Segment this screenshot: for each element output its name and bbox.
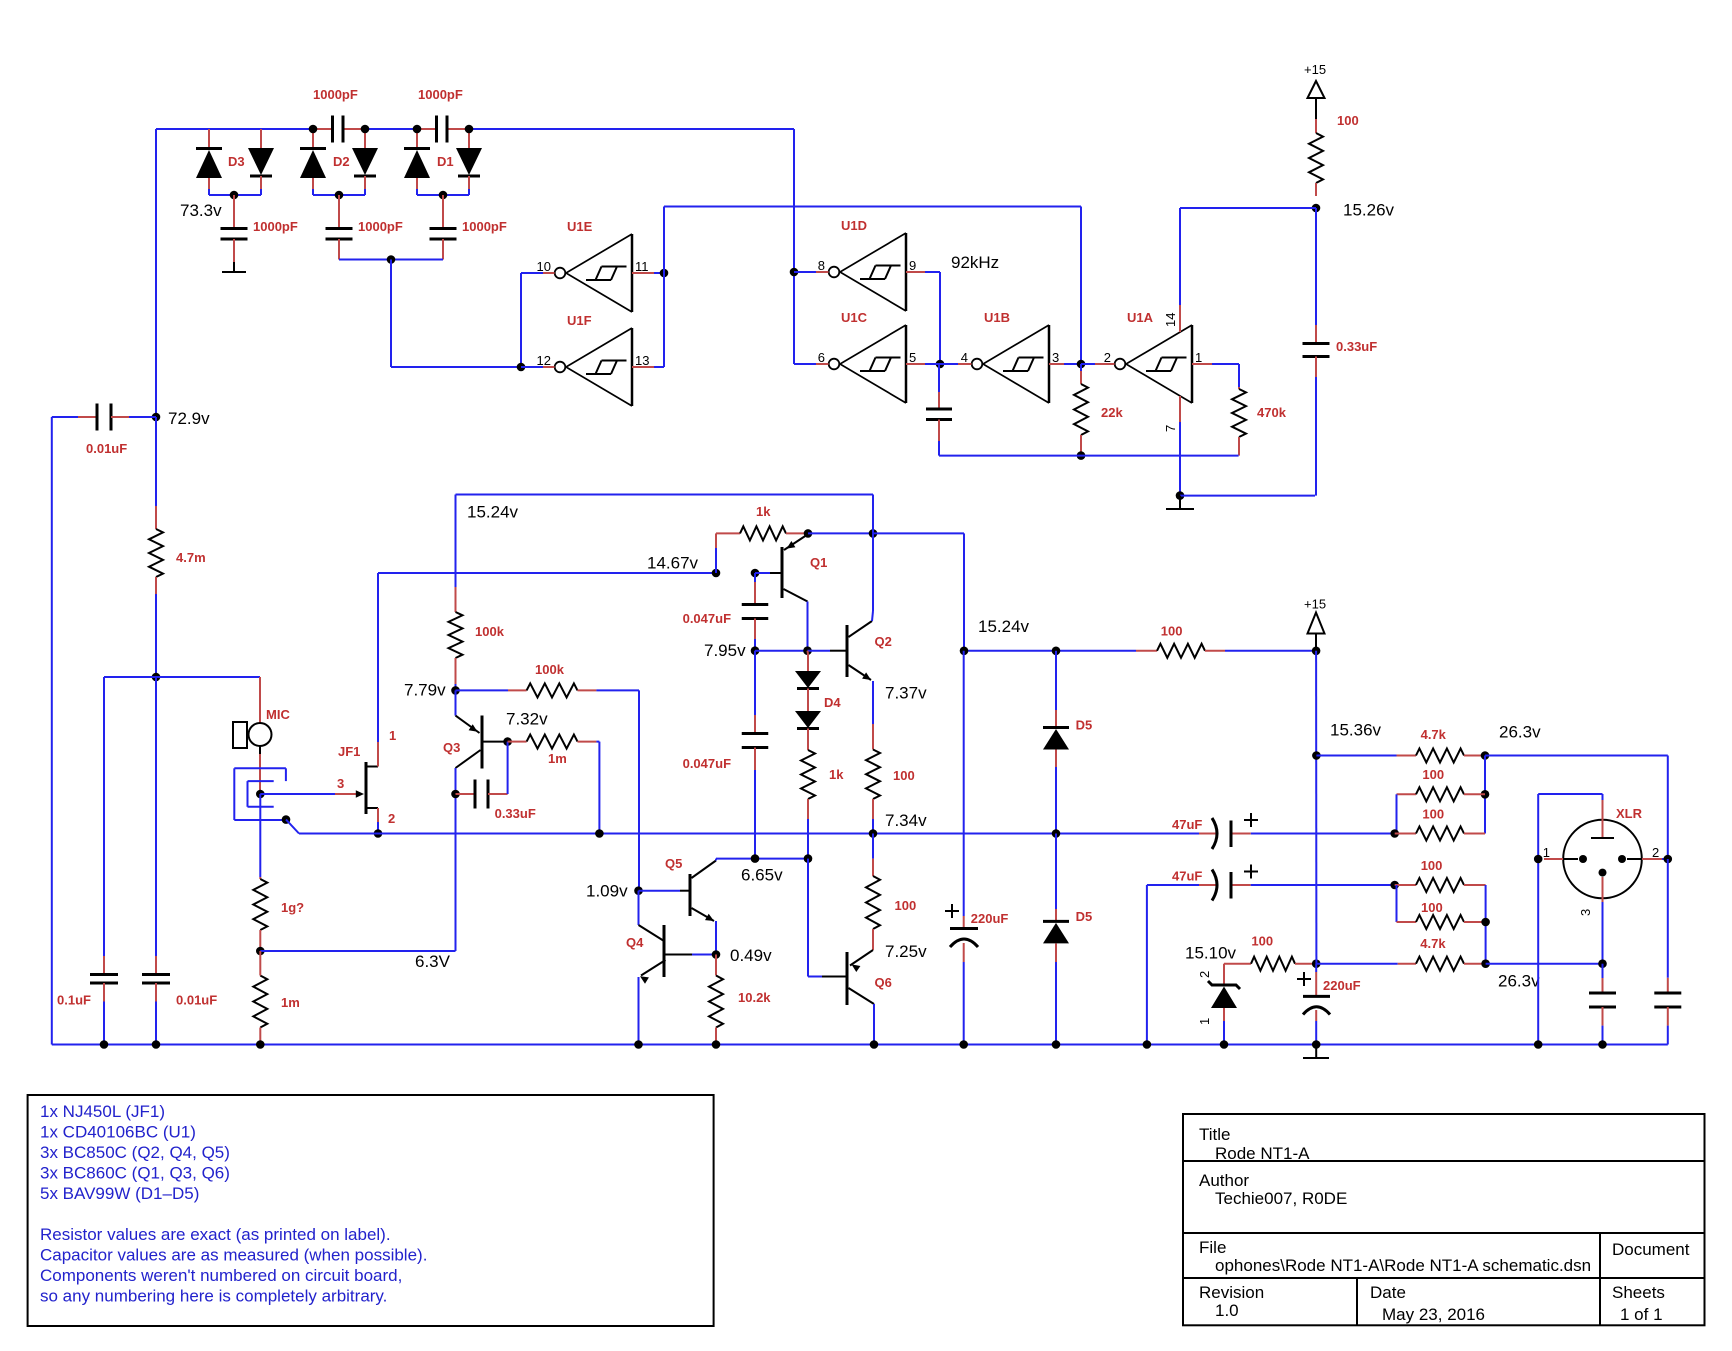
svg-text:22k: 22k xyxy=(1101,405,1123,420)
svg-text:73.3v: 73.3v xyxy=(180,201,222,220)
svg-text:Author: Author xyxy=(1199,1171,1249,1190)
svg-text:0.33uF: 0.33uF xyxy=(495,806,536,821)
svg-text:3x BC860C (Q1, Q3, Q6): 3x BC860C (Q1, Q3, Q6) xyxy=(40,1164,230,1183)
svg-text:5x BAV99W (D1–D5): 5x BAV99W (D1–D5) xyxy=(40,1184,199,1203)
svg-text:4: 4 xyxy=(961,350,968,365)
svg-text:1k: 1k xyxy=(829,767,844,782)
svg-text:May 23, 2016: May 23, 2016 xyxy=(1382,1305,1485,1324)
svg-text:XLR: XLR xyxy=(1616,806,1643,821)
svg-text:ophones\Rode NT1-A\Rode NT1-A: ophones\Rode NT1-A\Rode NT1-A schematic.… xyxy=(1215,1256,1591,1275)
svg-text:470k: 470k xyxy=(1257,405,1287,420)
svg-text:1: 1 xyxy=(1197,1018,1212,1025)
svg-text:47uF: 47uF xyxy=(1172,868,1202,883)
svg-text:3: 3 xyxy=(337,776,344,791)
svg-text:7.79v: 7.79v xyxy=(404,681,446,700)
svg-text:Document: Document xyxy=(1612,1240,1690,1259)
svg-text:100: 100 xyxy=(1161,624,1183,639)
svg-text:12: 12 xyxy=(537,353,551,368)
svg-text:Q5: Q5 xyxy=(665,856,682,871)
svg-text:1g?: 1g? xyxy=(281,900,304,915)
svg-text:100: 100 xyxy=(1422,806,1444,821)
svg-text:D5: D5 xyxy=(1076,909,1093,924)
svg-text:100k: 100k xyxy=(475,624,505,639)
svg-text:+15: +15 xyxy=(1304,62,1326,77)
svg-text:1: 1 xyxy=(389,728,396,743)
svg-text:Q2: Q2 xyxy=(875,634,892,649)
svg-text:100: 100 xyxy=(895,898,917,913)
svg-text:7.32v: 7.32v xyxy=(506,710,548,729)
svg-text:15.36v: 15.36v xyxy=(1330,721,1382,740)
svg-text:8: 8 xyxy=(818,258,825,273)
svg-text:2: 2 xyxy=(388,811,395,826)
svg-text:U1B: U1B xyxy=(984,310,1010,325)
svg-text:U1F: U1F xyxy=(567,313,592,328)
svg-text:0.047uF: 0.047uF xyxy=(683,756,731,771)
svg-text:100: 100 xyxy=(1421,900,1443,915)
svg-text:Components weren't numbered on: Components weren't numbered on circuit b… xyxy=(40,1266,402,1285)
svg-text:10.2k: 10.2k xyxy=(738,990,771,1005)
svg-text:220uF: 220uF xyxy=(971,911,1009,926)
svg-text:1000pF: 1000pF xyxy=(418,87,463,102)
svg-text:Q6: Q6 xyxy=(875,975,892,990)
svg-text:72.9v: 72.9v xyxy=(168,409,210,428)
svg-text:0.01uF: 0.01uF xyxy=(176,993,217,1008)
svg-text:0.49v: 0.49v xyxy=(730,946,772,965)
svg-text:1000pF: 1000pF xyxy=(358,219,403,234)
svg-text:220uF: 220uF xyxy=(1323,978,1361,993)
svg-text:15.10v: 15.10v xyxy=(1185,944,1237,963)
svg-text:1m: 1m xyxy=(281,995,300,1010)
svg-text:6.65v: 6.65v xyxy=(741,866,783,885)
svg-text:JF1: JF1 xyxy=(338,744,360,759)
svg-text:7.25v: 7.25v xyxy=(885,942,927,961)
svg-text:Rode NT1-A: Rode NT1-A xyxy=(1215,1144,1310,1163)
svg-text:Q4: Q4 xyxy=(626,935,644,950)
svg-text:14.67v: 14.67v xyxy=(647,554,699,573)
svg-text:+15: +15 xyxy=(1304,597,1326,612)
svg-text:Capacitor values are as measur: Capacitor values are as measured (when p… xyxy=(40,1246,427,1265)
svg-text:1 of 1: 1 of 1 xyxy=(1620,1305,1663,1324)
svg-text:U1E: U1E xyxy=(567,219,593,234)
svg-text:100: 100 xyxy=(1337,113,1359,128)
svg-text:1.0: 1.0 xyxy=(1215,1301,1239,1320)
svg-text:D2: D2 xyxy=(333,154,350,169)
svg-text:26.3v: 26.3v xyxy=(1498,972,1540,991)
svg-text:15.24v: 15.24v xyxy=(467,503,519,522)
svg-text:Techie007, R0DE: Techie007, R0DE xyxy=(1215,1189,1347,1208)
svg-text:1x NJ450L (JF1): 1x NJ450L (JF1) xyxy=(40,1102,165,1121)
svg-text:MIC: MIC xyxy=(266,707,290,722)
svg-text:Sheets: Sheets xyxy=(1612,1283,1665,1302)
svg-text:4.7m: 4.7m xyxy=(176,550,206,565)
svg-text:0.1uF: 0.1uF xyxy=(57,993,91,1008)
svg-text:U1D: U1D xyxy=(841,218,867,233)
svg-text:92kHz: 92kHz xyxy=(951,253,999,272)
svg-text:7: 7 xyxy=(1163,425,1178,432)
svg-text:14: 14 xyxy=(1163,313,1178,327)
svg-text:D4: D4 xyxy=(824,695,841,710)
svg-text:1: 1 xyxy=(1195,350,1202,365)
svg-text:1000pF: 1000pF xyxy=(253,219,298,234)
svg-text:100: 100 xyxy=(1421,858,1443,873)
svg-text:D3: D3 xyxy=(228,154,245,169)
svg-text:0.01uF: 0.01uF xyxy=(86,441,127,456)
svg-text:3: 3 xyxy=(1578,909,1593,916)
svg-text:Revision: Revision xyxy=(1199,1283,1264,1302)
svg-text:Date: Date xyxy=(1370,1283,1406,1302)
svg-text:6: 6 xyxy=(818,350,825,365)
svg-text:Q1: Q1 xyxy=(810,555,827,570)
svg-text:3x BC850C (Q2, Q4, Q5): 3x BC850C (Q2, Q4, Q5) xyxy=(40,1143,230,1162)
svg-text:0.047uF: 0.047uF xyxy=(683,611,731,626)
svg-text:2: 2 xyxy=(1197,971,1212,978)
svg-text:File: File xyxy=(1199,1238,1226,1257)
svg-text:6.3V: 6.3V xyxy=(415,952,451,971)
svg-text:Title: Title xyxy=(1199,1125,1231,1144)
svg-text:15.24v: 15.24v xyxy=(978,617,1030,636)
svg-text:7.37v: 7.37v xyxy=(885,684,927,703)
svg-text:2: 2 xyxy=(1652,845,1659,860)
svg-text:U1A: U1A xyxy=(1127,310,1154,325)
svg-text:0.33uF: 0.33uF xyxy=(1336,339,1377,354)
svg-text:100k: 100k xyxy=(535,662,565,677)
svg-text:1: 1 xyxy=(1543,845,1550,860)
svg-text:1000pF: 1000pF xyxy=(313,87,358,102)
svg-text:15.26v: 15.26v xyxy=(1343,201,1395,220)
svg-text:47uF: 47uF xyxy=(1172,817,1202,832)
svg-text:5: 5 xyxy=(909,350,916,365)
svg-text:Q3: Q3 xyxy=(443,740,460,755)
svg-text:1.09v: 1.09v xyxy=(586,882,628,901)
svg-text:4.7k: 4.7k xyxy=(1421,727,1447,742)
svg-text:D5: D5 xyxy=(1076,718,1093,733)
svg-text:10: 10 xyxy=(537,259,551,274)
svg-text:7.95v: 7.95v xyxy=(704,641,746,660)
svg-text:1m: 1m xyxy=(548,751,567,766)
svg-text:100: 100 xyxy=(1422,767,1444,782)
svg-text:11: 11 xyxy=(635,259,649,274)
svg-text:26.3v: 26.3v xyxy=(1499,723,1541,742)
svg-text:9: 9 xyxy=(909,258,916,273)
svg-text:7.34v: 7.34v xyxy=(885,811,927,830)
svg-text:1000pF: 1000pF xyxy=(462,219,507,234)
svg-text:1x CD40106BC (U1): 1x CD40106BC (U1) xyxy=(40,1123,196,1142)
svg-text:Resistor values are exact (as: Resistor values are exact (as printed on… xyxy=(40,1225,391,1244)
svg-text:D1: D1 xyxy=(437,154,454,169)
svg-text:U1C: U1C xyxy=(841,310,868,325)
svg-text:2: 2 xyxy=(1104,350,1111,365)
svg-text:3: 3 xyxy=(1052,350,1059,365)
svg-text:100: 100 xyxy=(893,768,915,783)
svg-text:so any numbering here is compl: so any numbering here is completely arbi… xyxy=(40,1287,387,1306)
svg-text:100: 100 xyxy=(1251,934,1273,949)
svg-text:13: 13 xyxy=(635,353,649,368)
svg-text:1k: 1k xyxy=(756,504,771,519)
svg-text:4.7k: 4.7k xyxy=(1420,936,1446,951)
